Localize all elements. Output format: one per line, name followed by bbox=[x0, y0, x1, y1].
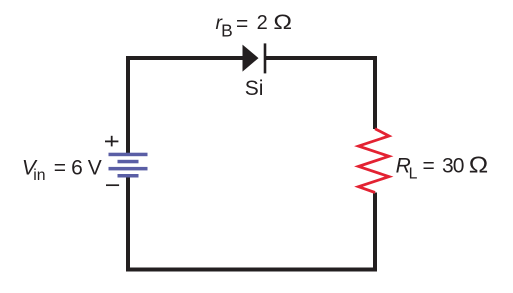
svg-text:Ω: Ω bbox=[273, 9, 292, 33]
svg-text:V in = 6 V: V in = 6 V bbox=[22, 157, 102, 185]
svg-text:R L = 3 0: R L = 3 0 bbox=[396, 155, 465, 184]
svg-text:Si: Si bbox=[245, 77, 264, 100]
svg-text:Ω: Ω bbox=[469, 153, 488, 178]
svg-text:r B = 2: r B = 2 bbox=[216, 11, 268, 42]
